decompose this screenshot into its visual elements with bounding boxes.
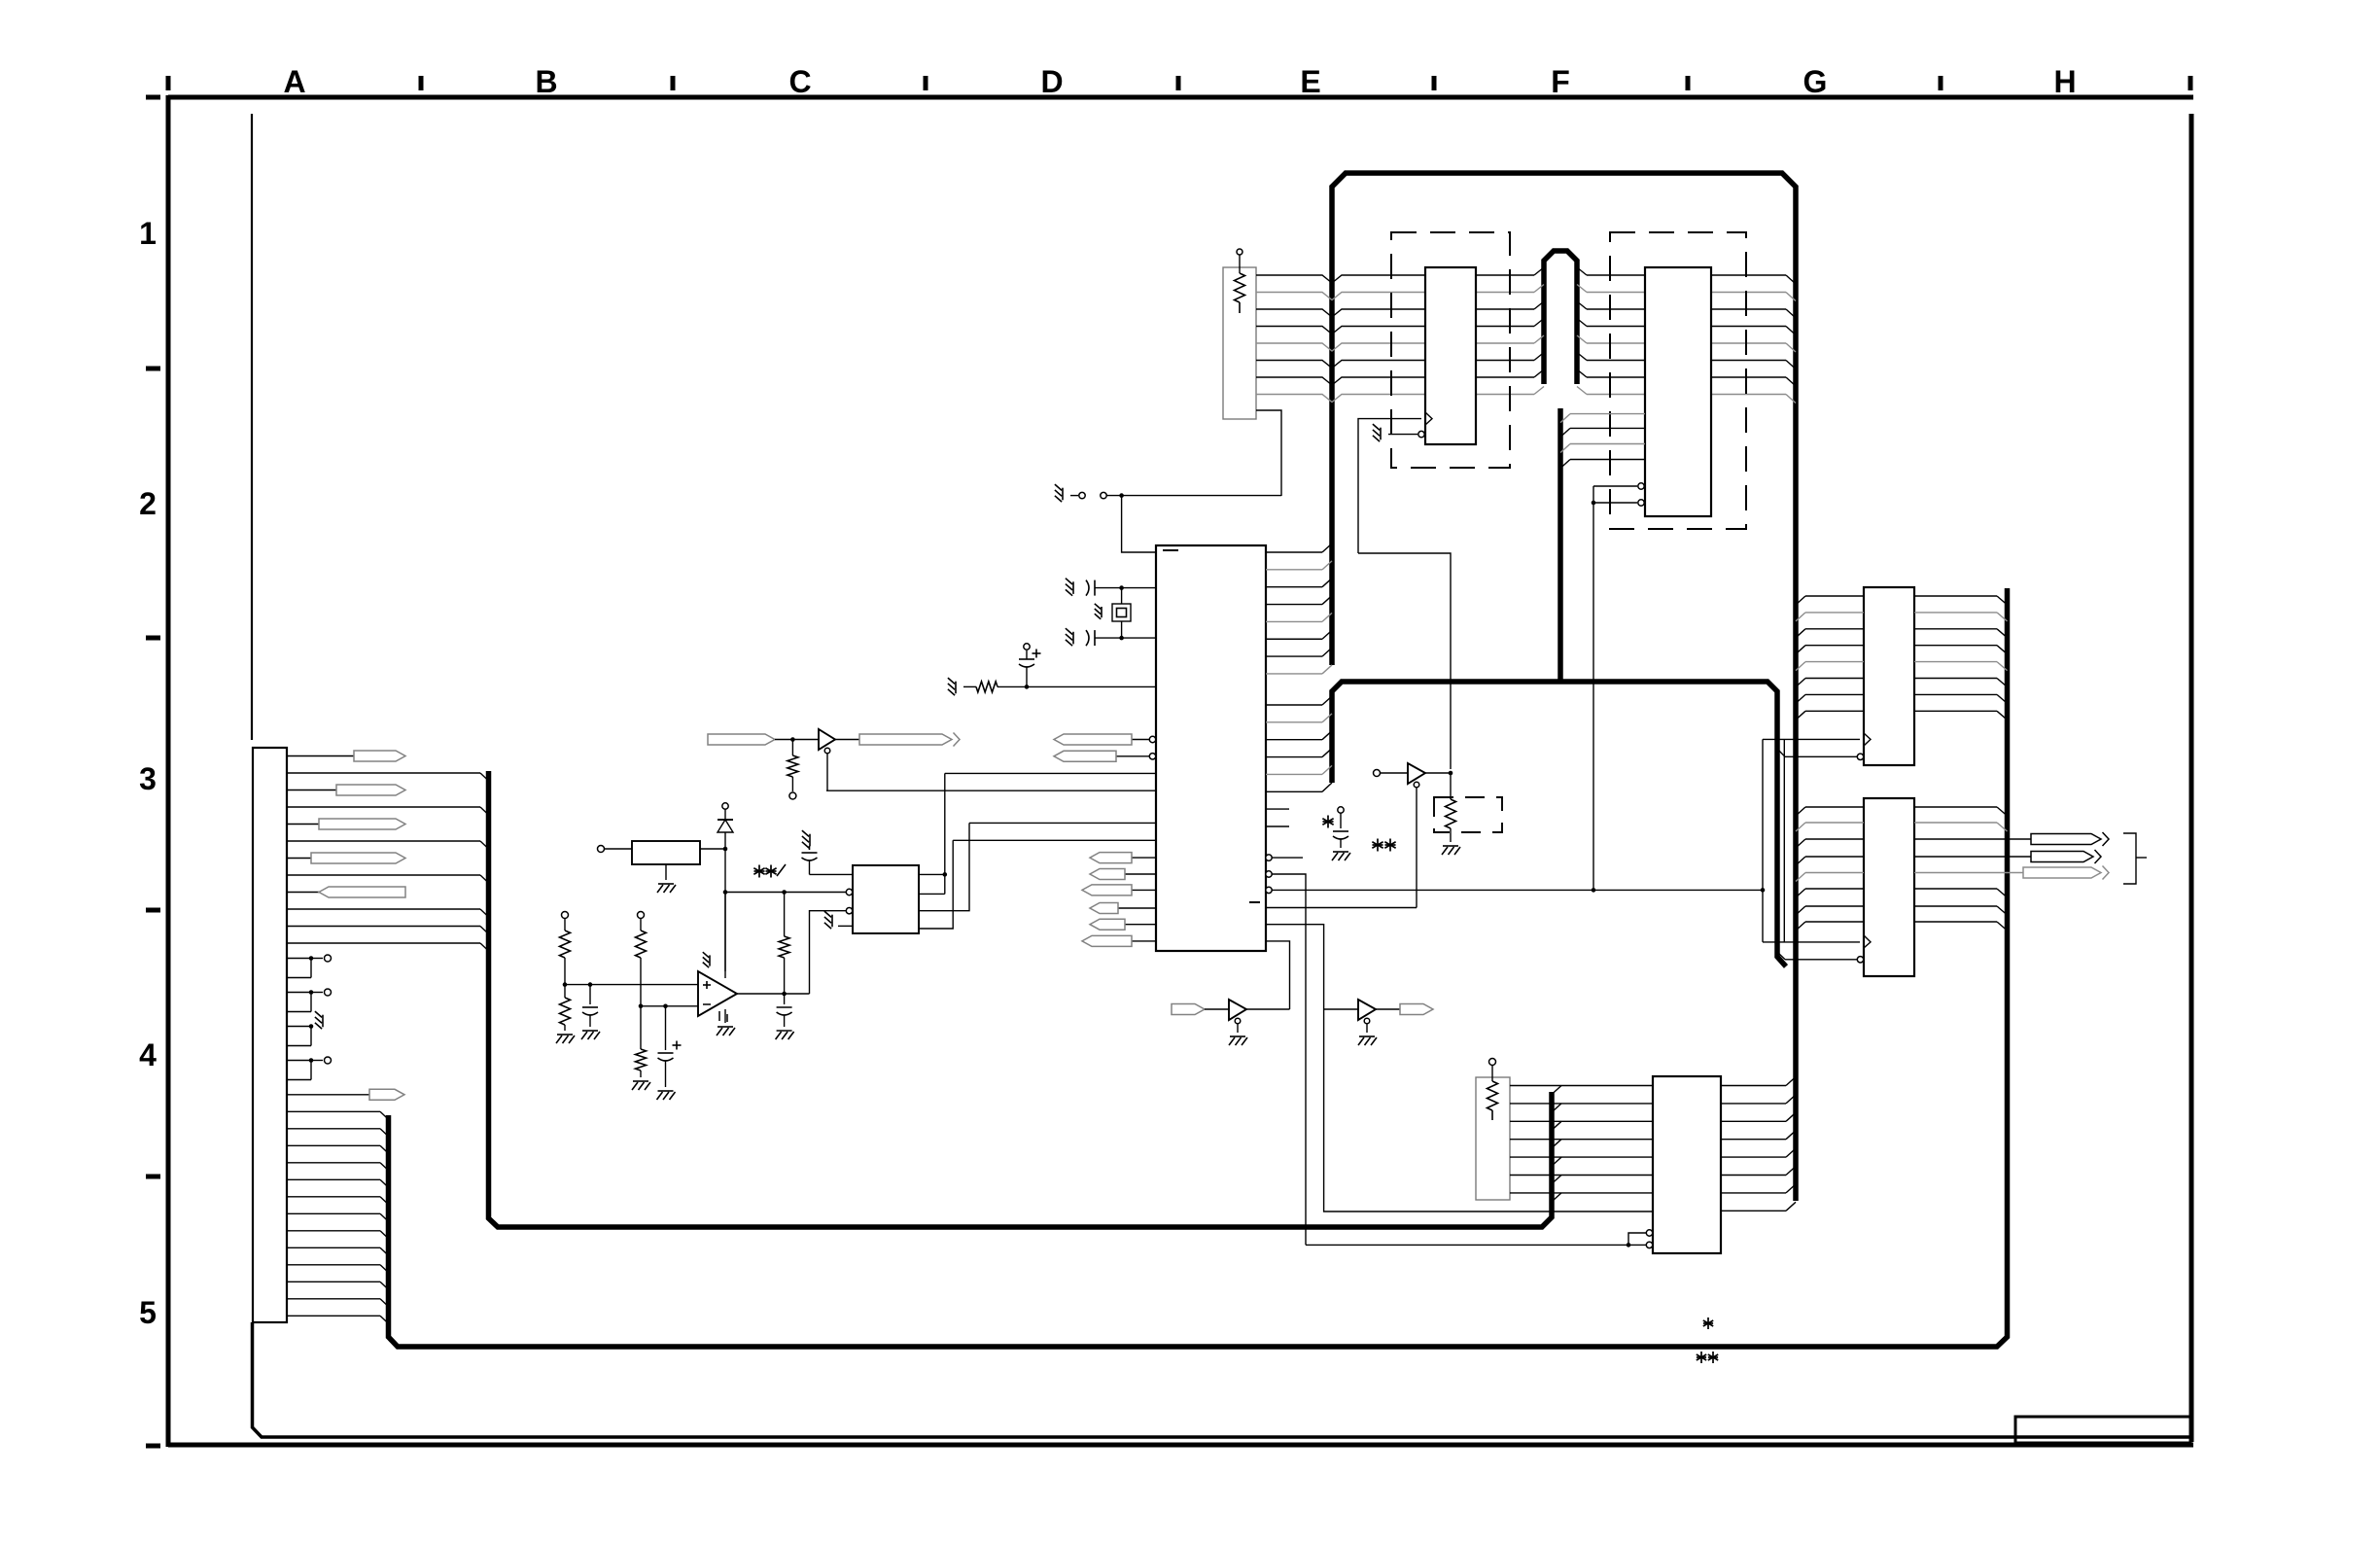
svg-text:G: G: [1803, 64, 1828, 99]
svg-text:D: D: [1040, 64, 1063, 99]
svg-text:5: 5: [139, 1295, 157, 1330]
svg-text:B: B: [535, 64, 557, 99]
svg-text:1: 1: [139, 216, 157, 251]
svg-text:H: H: [2053, 64, 2076, 99]
svg-text:E: E: [1300, 64, 1320, 99]
svg-text:C: C: [788, 64, 811, 99]
svg-text:3: 3: [139, 761, 157, 796]
svg-text:F: F: [1551, 64, 1570, 99]
svg-text:A: A: [283, 64, 305, 99]
svg-text:2: 2: [139, 486, 157, 521]
svg-text:4: 4: [139, 1037, 157, 1072]
